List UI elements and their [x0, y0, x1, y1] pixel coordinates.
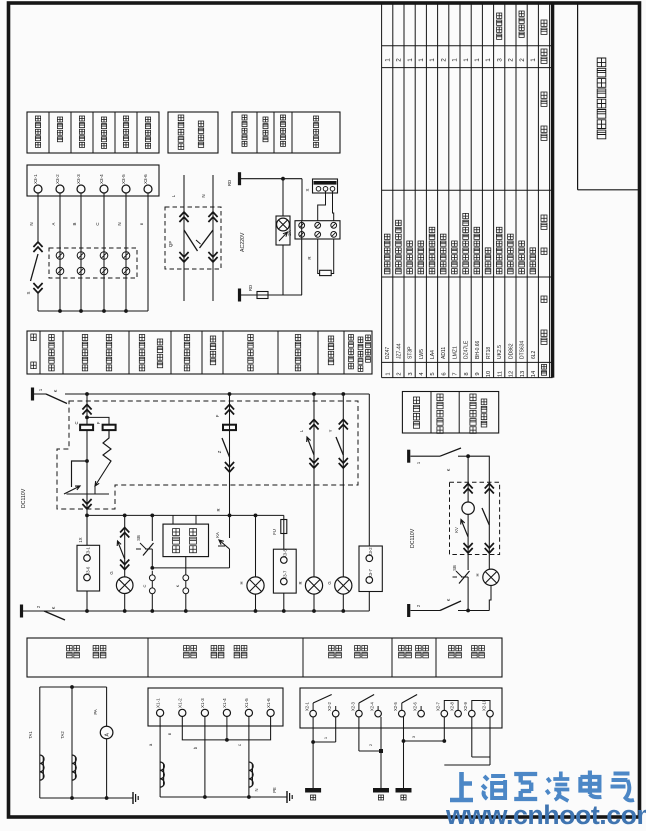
svg-text:X3-4: X3-4: [99, 174, 104, 184]
svg-text:A: A: [51, 222, 56, 225]
svg-text:2: 2: [519, 58, 526, 62]
wire from X3-3 down: [80, 193, 82, 311]
wire AC bottom: [241, 294, 302, 296]
KT output wire + terminals: [185, 557, 187, 575]
label strip A (panel function labels): [27, 112, 159, 153]
metering left wire + CT: [39, 687, 41, 798]
wire from X3-5 down: [125, 193, 127, 311]
svg-text:1: 1: [385, 372, 391, 375]
terminal X3-4: [100, 185, 108, 193]
svg-text:X2-2: X2-2: [327, 701, 332, 711]
svg-text:DC110V: DC110V: [410, 528, 416, 548]
svg-text:c: c: [237, 744, 242, 746]
supply bar top (fuse terminal): [238, 172, 241, 185]
svg-text:PE: PE: [272, 787, 277, 793]
svg-text:DZ47LE: DZ47LE: [464, 340, 470, 359]
wire from X3-6 down: [147, 193, 149, 311]
bottom label strip: [27, 638, 502, 677]
label B text: [178, 115, 184, 149]
wire QF right pole: [212, 175, 214, 301]
svg-text:X3-6: X3-6: [86, 566, 91, 576]
svg-text:1X: 1X: [78, 537, 83, 542]
signal lamp HL1: [116, 577, 133, 594]
svg-text:X2-9: X2-9: [463, 701, 468, 711]
svg-text:QF: QF: [168, 241, 173, 248]
terminal X1-2: [179, 709, 186, 716]
CT terminal circles at x=60: [56, 252, 64, 260]
resistor R: [320, 270, 332, 275]
branch lamp1 contact: [117, 541, 125, 559]
svg-text:X2-1: X2-1: [305, 701, 310, 711]
CT terminal circles at x=104: [100, 252, 108, 260]
terminal pair under SB1: [149, 575, 155, 581]
svg-text:11: 11: [497, 371, 503, 377]
svg-text:SB: SB: [452, 565, 457, 571]
right drop to X3-2 block: [368, 394, 370, 546]
svg-text:C: C: [142, 584, 147, 587]
svg-text:K: K: [51, 606, 56, 609]
contact on branch 229.5: [222, 438, 230, 457]
terminal X2-7: [441, 710, 448, 717]
metering bottom wire: [40, 797, 133, 799]
svg-text:S: S: [26, 291, 31, 294]
connector X top block: [313, 179, 338, 193]
svg-text:1: 1: [530, 58, 537, 62]
svg-text:B: B: [72, 222, 77, 225]
svg-text:X2-4: X2-4: [370, 701, 375, 711]
svg-text:BH-0.66: BH-0.66: [475, 340, 481, 359]
svg-text:2: 2: [508, 58, 515, 62]
svg-text:R: R: [307, 256, 312, 259]
svg-text:X1-4: X1-4: [222, 698, 227, 708]
title block box: [577, 3, 579, 190]
X1 even link bus: [182, 717, 270, 740]
svg-text:F: F: [215, 414, 220, 417]
branch lamp1 chevrons down: [120, 560, 129, 570]
terminal X3-6: [144, 185, 152, 193]
svg-text:1: 1: [429, 58, 436, 62]
svg-text:8: 8: [464, 372, 470, 375]
KA2 contact arrow: [95, 464, 109, 486]
node at KA loop: [85, 459, 89, 463]
svg-text:LA4: LA4: [430, 350, 436, 359]
label strip C: [232, 112, 340, 153]
svg-text:X3-6: X3-6: [143, 174, 148, 184]
coil on branch 229.5: [223, 425, 236, 430]
svg-text:1: 1: [463, 58, 470, 62]
time relay box KT: [163, 524, 209, 557]
svg-text:X1-2: X1-2: [178, 698, 183, 708]
svg-text:AD11: AD11: [441, 347, 447, 359]
X2 bottom wiring: [312, 717, 314, 788]
right pushbutton SB: [453, 576, 469, 578]
svg-text:X3-3: X3-3: [76, 174, 81, 184]
svg-text:C: C: [74, 421, 79, 424]
KA2 thermal zigzag: [103, 430, 111, 464]
label A6 text: [145, 117, 150, 148]
X1 ground: [286, 791, 288, 803]
svg-text:KA: KA: [215, 532, 220, 538]
svg-text:G: G: [109, 571, 114, 574]
terminal X1-6: [267, 709, 274, 716]
svg-text:1: 1: [418, 58, 425, 62]
label C1 text: [242, 115, 247, 146]
branch lamp1: chevrons: [124, 515, 126, 577]
label C4 text: [314, 116, 319, 147]
terminal X2-5: [399, 710, 406, 717]
lamp unit arrow: [279, 232, 288, 241]
svg-text:X3-2: X3-2: [368, 547, 373, 557]
switch on right top feed: [440, 448, 461, 456]
svg-text:RD: RD: [227, 180, 232, 186]
terminal X3-1: [34, 185, 42, 193]
svg-text:JZ7-44: JZ7-44: [396, 343, 402, 359]
chevrons on KA branch: [82, 405, 91, 415]
terminal block X1 box: [148, 688, 283, 726]
terminal block X3-1/X3-6: [77, 545, 100, 591]
wires to resistor: [318, 239, 320, 274]
svg-text:X1-6: X1-6: [266, 698, 271, 708]
svg-text:X3-2: X3-2: [55, 174, 60, 184]
svg-text:X2-3: X2-3: [350, 701, 355, 711]
lamp branch x343.3: [342, 394, 344, 577]
terminal X1-1: [157, 709, 164, 716]
svg-text:PA: PA: [93, 709, 98, 714]
terminal X2-6: [418, 710, 425, 717]
middle strip texts: [31, 334, 36, 341]
right bottom feed: [407, 604, 410, 617]
chevrons down left wire: [33, 283, 42, 293]
svg-text:5: 5: [430, 372, 436, 375]
CT test block dashed box: [49, 248, 137, 278]
svg-text:N: N: [117, 222, 122, 225]
svg-text:TA1: TA1: [28, 731, 33, 739]
svg-text:X3-7: X3-7: [368, 568, 373, 578]
terminal X2-9: [469, 710, 476, 717]
wire AC top: [241, 178, 302, 180]
terminal block X3-2/X3-7 right: [359, 546, 382, 592]
relay enclosure dashed outline: [57, 401, 358, 509]
svg-text:10: 10: [486, 371, 492, 377]
wire left col through block: [301, 221, 303, 295]
svg-text:G: G: [327, 581, 332, 584]
node KA branch split: [85, 416, 89, 420]
svg-text:C: C: [95, 222, 100, 225]
KA1 lower wire: [86, 430, 88, 494]
knife switch top left: [34, 393, 46, 395]
svg-text:R: R: [298, 581, 303, 584]
svg-text:R: R: [216, 508, 221, 511]
svg-text:12: 12: [509, 371, 515, 377]
svg-text:K: K: [446, 598, 451, 601]
terminal X2-10: [487, 710, 494, 717]
branch KA main wire upper: [86, 394, 88, 425]
svg-text:X2-8: X2-8: [450, 701, 455, 711]
meter/indicator circle: [462, 502, 474, 514]
svg-text:X3-5: X3-5: [121, 174, 126, 184]
svg-text:6L2: 6L2: [531, 350, 537, 359]
current transformer disconnect chevrons up: [33, 242, 42, 252]
KA auxiliary contact loop: [72, 461, 88, 487]
svg-text:7: 7: [453, 372, 459, 375]
svg-text:X3-1: X3-1: [86, 546, 91, 556]
svg-text:1: 1: [485, 58, 492, 62]
wire from X3-2 down: [59, 193, 61, 311]
svg-text:Y: Y: [328, 429, 333, 432]
svg-text:X1-1: X1-1: [155, 698, 160, 708]
terminal X1-3: [201, 709, 208, 716]
X2 earth electrodes: [305, 788, 321, 793]
BOM header column texts: [541, 20, 547, 34]
svg-text:TA2: TA2: [60, 731, 65, 739]
BOM component name column texts: [384, 234, 390, 274]
svg-text:N: N: [29, 222, 34, 225]
terminal X2-4: [375, 710, 382, 717]
svg-text:1: 1: [452, 58, 459, 62]
wire phase bus left: [37, 193, 39, 243]
svg-text:K: K: [53, 389, 58, 392]
svg-text:14: 14: [531, 370, 537, 377]
label A5 text: [123, 116, 128, 147]
right label box (3 cells): [402, 392, 498, 434]
ammeter PA: [106, 687, 108, 726]
wires X block to meter block: [318, 191, 326, 221]
watermark Shanghai Huling Electric (hand-drawn strokes): [450, 772, 473, 800]
lamp branch x314: [313, 394, 315, 577]
svg-text:UK2.5: UK2.5: [497, 345, 503, 359]
svg-text:X3-7: X3-7: [282, 570, 287, 580]
label A4 text: [101, 117, 106, 148]
svg-text:3: 3: [496, 58, 503, 62]
label box B (title label): [168, 112, 218, 153]
svg-text:DD862: DD862: [508, 343, 514, 359]
wire from X3-4 down: [103, 193, 105, 311]
label A3 text: [79, 116, 84, 147]
wire right branch down: [301, 179, 303, 221]
wire through lamp: [282, 179, 284, 216]
terminal block X3-5/X3-7: [273, 549, 296, 593]
svg-text:AC220V: AC220V: [240, 232, 246, 252]
svg-text:6: 6: [441, 372, 447, 375]
indicator lamp HL: [277, 218, 290, 231]
meter terminal block (6 screws): [295, 221, 340, 239]
QF chevrons up: [179, 212, 188, 222]
branch pushbutton SB1: [151, 515, 153, 541]
bottom control bus: [23, 610, 369, 612]
svg-text:X2-6: X2-6: [413, 701, 418, 711]
svg-text:N: N: [201, 194, 206, 197]
X2 pair links right: [444, 701, 458, 711]
svg-text:2: 2: [440, 58, 447, 62]
right branch1 chevrons down: [464, 543, 473, 553]
relay coil KA2: [103, 425, 116, 430]
svg-text:SB: SB: [136, 535, 141, 541]
right branch1 chevrons: [467, 482, 469, 502]
fuse drop to X3-5 block: [283, 515, 285, 549]
svg-text:LW5: LW5: [419, 349, 425, 359]
bottom strip texts: [67, 646, 73, 658]
top control bus: [87, 393, 369, 395]
svg-text:H: H: [475, 573, 480, 576]
svg-text:FU: FU: [272, 529, 277, 535]
svg-text:X1-3: X1-3: [200, 698, 205, 708]
svg-text:KV: KV: [454, 527, 459, 533]
svg-text:X2-5: X2-5: [393, 701, 398, 711]
svg-text:X1-5: X1-5: [244, 698, 249, 708]
terminal X1-5: [245, 709, 252, 716]
svg-text:1: 1: [474, 58, 481, 62]
right lamp: [483, 569, 499, 585]
fuse FU on bottom wire: [257, 292, 268, 299]
terminal X2-3: [356, 710, 363, 717]
metering mid wire + CT: [71, 687, 73, 798]
control bus 2: [87, 514, 284, 516]
svg-text:3: 3: [408, 372, 414, 375]
terminal X3-2: [56, 185, 64, 193]
svg-text:Z: Z: [217, 450, 222, 453]
supply bar bottom: [238, 289, 241, 302]
wire bus2 to X3 block and down: [86, 515, 88, 545]
svg-text:ST3P: ST3P: [408, 346, 414, 359]
contact KA to bus2 branch: [229, 515, 231, 538]
QF chevrons down: [179, 252, 188, 262]
terminal X1-4: [223, 709, 230, 716]
svg-text:9: 9: [475, 372, 481, 375]
KA chevrons down: [82, 499, 91, 509]
node on AC top wire: [281, 177, 285, 181]
terminal block X2 box: [300, 688, 502, 728]
svg-text:13: 13: [520, 371, 526, 377]
right label texts: [413, 397, 419, 428]
right branch2: [488, 482, 490, 569]
right dashed enclosure: [450, 482, 500, 554]
QF contacts: [184, 230, 198, 251]
CT terminal circles at x=81: [77, 252, 85, 260]
svg-text:2: 2: [396, 58, 403, 62]
BOM notes texts: [497, 13, 502, 39]
drawing title text: [597, 58, 606, 139]
X2 pair switches: [313, 703, 336, 710]
terminal X2-2: [332, 710, 339, 717]
terminal block X3 box: [27, 165, 159, 196]
svg-text:RT18: RT18: [486, 347, 492, 359]
terminal X2-1: [310, 710, 317, 717]
label C3 text: [281, 115, 286, 146]
svg-text:1: 1: [384, 58, 391, 62]
svg-text:X: X: [305, 188, 310, 191]
right branch top link: [468, 456, 489, 482]
CT terminal circles at x=126: [122, 252, 130, 260]
label A2 text: [57, 117, 62, 142]
X1-3 wire: [204, 717, 206, 798]
svg-text:2: 2: [397, 372, 403, 375]
X1 bottom bus: [160, 796, 287, 798]
KA branch join bar: [67, 493, 110, 495]
wire QF left pole: [183, 175, 185, 301]
svg-text:X2-7: X2-7: [436, 701, 441, 711]
label C2 text: [263, 117, 268, 142]
svg-text:X3-1: X3-1: [33, 174, 38, 184]
X1-5 wire + CT: [248, 717, 250, 798]
bottom bus of CT section: [38, 310, 148, 312]
svg-text:LMZ1: LMZ1: [452, 346, 458, 359]
relay coil KA1: [80, 425, 93, 430]
terminal X3-3: [77, 185, 85, 193]
svg-text:F: F: [96, 421, 101, 424]
svg-text:H: H: [239, 581, 244, 584]
svg-text:K: K: [446, 468, 451, 471]
svg-text:DC110V: DC110V: [21, 488, 27, 508]
svg-text:N: N: [254, 788, 259, 791]
svg-text:2X: 2X: [287, 230, 292, 235]
right branch1 contact: [461, 520, 468, 538]
BOM table grid: [381, 3, 383, 378]
DC right supply bar top: [407, 450, 410, 463]
middle label strip: [27, 331, 372, 374]
link bus at 567.9: [152, 567, 229, 569]
terminal X2-8: [455, 710, 462, 717]
wire branch 255.5 with lamp: [255, 515, 257, 577]
metering loop top wire: [40, 686, 107, 688]
branch contactor chain x229.5 upper: [229, 394, 231, 515]
svg-text:K: K: [175, 584, 180, 587]
svg-text:1: 1: [407, 58, 414, 62]
indicator lamp unit box: [276, 216, 290, 245]
DC supply bar bottom left: [20, 605, 23, 618]
svg-text:X3-5: X3-5: [282, 548, 287, 558]
metering ground: [132, 792, 134, 804]
label A1 text: [35, 116, 40, 147]
breaker QF dashed box: [165, 207, 221, 269]
switch contact on left wire: [31, 254, 39, 281]
svg-text:DTS634: DTS634: [520, 340, 526, 359]
svg-text:www.cnhoot.com: www.cnhoot.com: [445, 800, 646, 830]
svg-text:DZ47: DZ47: [385, 347, 391, 359]
X1-1 wire + CT: [159, 717, 161, 798]
BOM table thick right border: [551, 3, 554, 378]
svg-text:RD: RD: [248, 285, 253, 291]
DC supply bar top left: [31, 388, 34, 401]
terminal X3-5: [122, 185, 130, 193]
KT box feeders: [172, 515, 174, 524]
